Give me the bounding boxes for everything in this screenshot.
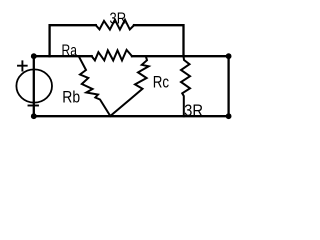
- voltage source V lead (vertical through circle): [33, 56, 35, 116]
- voltage source minus bar: [29, 105, 39, 107]
- svg-text:Rb: Rb: [62, 87, 80, 106]
- node dot bottom-right: [226, 113, 232, 119]
- voltage source plus sign: [18, 61, 27, 70]
- node dot top-right: [226, 53, 232, 59]
- svg-text:Rc: Rc: [153, 72, 170, 91]
- svg-text:3R: 3R: [110, 11, 127, 28]
- wire middle horizontal, left of Ra: [34, 55, 92, 57]
- resistor 3R (right) vertical zigzag: [181, 56, 190, 116]
- wire top run right of 3R + right vertical down to middle wire: [134, 25, 184, 56]
- node dot bottom-left: [31, 113, 37, 119]
- wire middle horizontal, right of Ra to right edge: [132, 55, 229, 57]
- resistor Rb diagonal zigzag + lead to bottom node: [79, 56, 111, 116]
- resistor Ra zigzag: [92, 50, 132, 61]
- node dot top-left: [31, 53, 37, 59]
- wire top loop: left vertical + top run left of 3R: [50, 25, 96, 56]
- voltage source V circle: [16, 69, 52, 102]
- wire right vertical: [227, 56, 229, 116]
- resistor Rc vertical zigzag + lead to bottom node: [110, 56, 148, 116]
- wire bottom horizontal: [34, 115, 229, 117]
- resistor 3R (top) zigzag: [96, 20, 134, 30]
- svg-text:Ra: Ra: [62, 43, 77, 60]
- svg-text:3R: 3R: [184, 101, 203, 120]
